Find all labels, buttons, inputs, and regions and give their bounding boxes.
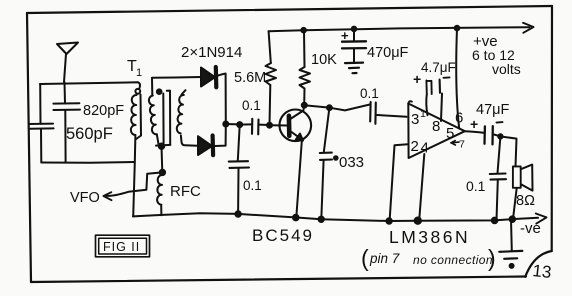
svg-text:5: 5 bbox=[446, 125, 454, 142]
svg-text:6: 6 bbox=[455, 110, 463, 127]
svg-text:0.1: 0.1 bbox=[360, 86, 379, 101]
svg-text:): ) bbox=[488, 245, 496, 271]
svg-text:0.1: 0.1 bbox=[242, 98, 261, 113]
svg-text:2×1N914: 2×1N914 bbox=[181, 44, 242, 61]
svg-text:470μF: 470μF bbox=[367, 45, 409, 61]
svg-text:+: + bbox=[413, 71, 421, 87]
svg-text:5.6M: 5.6M bbox=[234, 70, 266, 86]
svg-text:pin 7: pin 7 bbox=[369, 251, 400, 266]
svg-text:-ve: -ve bbox=[520, 220, 541, 237]
svg-text:033: 033 bbox=[339, 154, 364, 171]
svg-text:0.1: 0.1 bbox=[466, 178, 486, 194]
svg-text:0.1: 0.1 bbox=[243, 178, 262, 193]
svg-text:10K: 10K bbox=[311, 52, 337, 68]
svg-text:1: 1 bbox=[420, 108, 426, 120]
svg-text:LM386N: LM386N bbox=[389, 227, 470, 247]
svg-text:7: 7 bbox=[459, 139, 465, 151]
svg-text:+: + bbox=[470, 116, 478, 132]
svg-text:560pF: 560pF bbox=[66, 125, 113, 143]
svg-text:8Ω: 8Ω bbox=[516, 193, 535, 209]
svg-text:(: ( bbox=[361, 245, 369, 271]
svg-text:RFC: RFC bbox=[170, 183, 201, 200]
svg-text:2: 2 bbox=[411, 138, 419, 155]
svg-text:1: 1 bbox=[136, 67, 142, 79]
svg-text:820pF: 820pF bbox=[83, 103, 124, 119]
svg-text:8: 8 bbox=[432, 118, 440, 135]
svg-text:volts: volts bbox=[492, 61, 521, 77]
svg-text:3: 3 bbox=[411, 111, 419, 128]
svg-text:no connection: no connection bbox=[413, 253, 493, 267]
svg-text:BC549: BC549 bbox=[252, 226, 314, 245]
svg-text:4: 4 bbox=[421, 140, 429, 157]
svg-text:4.7μF: 4.7μF bbox=[421, 60, 456, 75]
svg-text:47μF: 47μF bbox=[476, 102, 509, 118]
svg-text:13: 13 bbox=[532, 261, 553, 282]
svg-text:VFO: VFO bbox=[70, 190, 100, 206]
svg-text:+: + bbox=[341, 28, 349, 43]
svg-text:FIG II: FIG II bbox=[103, 240, 140, 254]
